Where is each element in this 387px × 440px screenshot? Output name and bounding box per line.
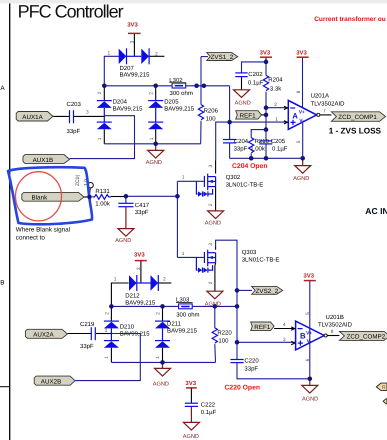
svg-text:100: 100 [218, 338, 229, 345]
svg-text:V-: V- [299, 118, 304, 123]
power 3V3 at op-amp A V+ [296, 49, 308, 107]
svg-text:BAV99,215: BAV99,215 [120, 72, 151, 79]
junction AGND bus at C205 [264, 156, 269, 161]
svg-text:AGND: AGND [205, 220, 221, 226]
junction AGND bus at R210 [249, 156, 254, 161]
wire op-amp A +in [216, 122, 288, 160]
junction bus-A at D205 [153, 84, 158, 89]
svg-text:2: 2 [149, 92, 155, 95]
wire D207 left leg [104, 56, 119, 86]
wire op-amp B +in [237, 341, 296, 343]
svg-text:0.1µF: 0.1µF [201, 409, 217, 416]
svg-text:3: 3 [130, 40, 136, 43]
transistor Q302 [196, 160, 263, 206]
junction +in wire B at C220 [235, 340, 240, 345]
wire gates vertical [176, 181, 178, 257]
svg-text:1: 1 [97, 137, 103, 140]
svg-text:R220: R220 [217, 330, 232, 337]
wire D204 mid to AUX1B [70, 116, 135, 159]
svg-text:R210: R210 [255, 138, 270, 145]
svg-text:BAV99,215: BAV99,215 [167, 328, 198, 335]
diode pair D205 [148, 86, 195, 144]
svg-text:AUX2B: AUX2B [41, 379, 62, 386]
svg-text:R204: R204 [268, 76, 283, 83]
svg-text:U201B: U201B [326, 314, 344, 321]
wire D212 left leg [111, 283, 128, 306]
svg-text:300 ohm: 300 ohm [176, 312, 199, 319]
capacitor C202 [235, 62, 266, 87]
svg-text:C205: C205 [271, 138, 286, 145]
junction bus-B at D210 [109, 304, 114, 309]
svg-text:1 - ZVS LOSS: 1 - ZVS LOSS [329, 126, 382, 135]
junction Blank node [87, 195, 92, 200]
wire rail D210/D211 bottom [111, 361, 215, 363]
svg-text:C220: C220 [244, 358, 259, 365]
svg-text:4: 4 [283, 322, 286, 328]
svg-text:BAV99,215: BAV99,215 [120, 331, 151, 338]
wire Q302 gate [177, 180, 203, 182]
junction AGND bus at op-amp A V- [300, 156, 305, 161]
net flag right edge lower [383, 399, 387, 404]
svg-text:3.3k: 3.3k [270, 85, 282, 92]
svg-text:D211: D211 [167, 320, 182, 327]
svg-text:3: 3 [208, 165, 214, 168]
wire D212 center tap [137, 282, 151, 284]
power 3V3 at C222 [185, 380, 196, 403]
svg-text:3V3: 3V3 [134, 251, 145, 258]
ground AGND under D204/D205 rail [146, 144, 164, 166]
svg-text:BAV99,215: BAV99,215 [113, 106, 144, 113]
capacitor C220 [230, 342, 309, 379]
svg-text:2: 2 [155, 52, 158, 58]
diode D212 [114, 267, 166, 306]
svg-text:3V3: 3V3 [303, 272, 314, 279]
svg-text:Q302: Q302 [226, 174, 241, 181]
svg-text:33pF: 33pF [135, 209, 149, 216]
svg-text:D205: D205 [164, 98, 179, 105]
wire AGND bus under caps [230, 157, 303, 159]
svg-text:1: 1 [275, 116, 278, 122]
svg-text:D210: D210 [120, 323, 135, 330]
net flag ZVS2_2 [252, 286, 283, 295]
svg-text:ZVS1_2: ZVS1_2 [211, 54, 234, 61]
junction bus-B at drain drop [235, 304, 240, 309]
junction rail-B at D211 / AGND [160, 360, 165, 365]
capacitor C203 [53, 101, 82, 135]
capacitor C417 [118, 196, 150, 216]
svg-text:Q303: Q303 [242, 249, 257, 256]
svg-text:3V3: 3V3 [260, 49, 271, 56]
svg-text:0.1µF: 0.1µF [248, 80, 264, 87]
junction V- rail at op-amp B [308, 377, 313, 382]
capacitor C205 with R210 tap [259, 138, 287, 158]
capacitor C204 [223, 138, 249, 158]
net flag ZVS1_2 [207, 53, 238, 62]
svg-text:1: 1 [104, 356, 110, 359]
resistor R204 [263, 62, 283, 141]
junction bus-A left of ZVS drop [194, 84, 199, 89]
ground AGND under C204/C205 bus [293, 158, 311, 182]
svg-text:V+: V+ [299, 109, 305, 114]
svg-text:8: 8 [296, 90, 302, 93]
svg-text:AGND: AGND [146, 160, 162, 166]
svg-text:3V3: 3V3 [127, 22, 138, 29]
svg-text:Where Blank signal: Where Blank signal [16, 227, 70, 234]
svg-text:C417: C417 [135, 202, 150, 209]
svg-text:REF1: REF1 [254, 324, 271, 331]
svg-text:3LN01C-TB-E: 3LN01C-TB-E [226, 182, 264, 189]
power 3V3 above D212 [134, 251, 147, 283]
svg-text:connect to: connect to [16, 235, 46, 242]
net flag ZCD_COMP1 [331, 112, 385, 122]
net flag REF1 upper [236, 111, 266, 120]
svg-text:7: 7 [323, 108, 326, 114]
svg-text:AGND: AGND [153, 381, 169, 387]
diode pair D211 [155, 306, 198, 362]
capacitor C222 [185, 401, 217, 415]
svg-text:33pF: 33pF [234, 145, 248, 152]
wire op-amp A output [320, 114, 332, 116]
ground AGND under C222 [183, 407, 200, 440]
wire AUX1A to D204 mid [74, 115, 104, 117]
wire ZVS1_2 stub [201, 56, 208, 58]
svg-text:C220 Open: C220 Open [225, 384, 261, 391]
svg-text:300 ohm: 300 ohm [170, 90, 193, 97]
svg-text:BAV99,215: BAV99,215 [125, 299, 156, 306]
svg-text:C204: C204 [234, 138, 249, 145]
svg-text:5: 5 [305, 312, 311, 315]
diode D207 [108, 40, 159, 78]
svg-text:2: 2 [163, 276, 166, 282]
ground AGND at op-amp B V- rail [302, 379, 318, 403]
wire bus ZVS node lower [111, 305, 237, 307]
svg-text:AUX1B: AUX1B [33, 157, 54, 164]
wire D207 right stub [149, 55, 164, 57]
wire D207 center tap [127, 55, 142, 57]
resistor R220 [212, 306, 232, 362]
svg-text:3: 3 [136, 267, 142, 270]
svg-text:3V3: 3V3 [296, 49, 307, 56]
svg-text:AGND: AGND [293, 176, 309, 182]
svg-text:0.1µF: 0.1µF [272, 145, 288, 152]
svg-text:5: 5 [296, 140, 302, 143]
junction R210 tap [264, 127, 269, 132]
inductor L303 [176, 297, 200, 319]
diode pair D210 [104, 306, 150, 362]
svg-text:AUX1A: AUX1A [22, 114, 43, 121]
svg-text:8: 8 [331, 329, 334, 335]
svg-text:TLV3502AID: TLV3502AID [311, 100, 346, 107]
net flag AUX1A [16, 112, 53, 122]
svg-text:REF1: REF1 [240, 113, 257, 120]
ground AGND under D210/D211 rail [153, 362, 171, 387]
wire D210 mid to AUX2B [75, 334, 140, 381]
svg-text:100: 100 [206, 115, 217, 122]
junction +in wire at C204 [227, 120, 232, 125]
wire ZVS2_2 stub [237, 289, 252, 291]
svg-text:U201A: U201A [311, 92, 329, 99]
svg-text:V-: V- [307, 339, 312, 344]
net flag right edge upper [376, 383, 387, 391]
junction R131/C417 node [124, 194, 129, 199]
svg-text:B: B [0, 280, 4, 287]
junction bus-B at D211 [160, 304, 165, 309]
svg-text:Blank: Blank [32, 195, 49, 202]
ground AGND at Q302 source [205, 190, 224, 226]
wire bus ZVS node upper [104, 85, 229, 87]
svg-text:1: 1 [108, 51, 111, 57]
svg-text:1.00k: 1.00k [250, 145, 266, 152]
svg-text:D212: D212 [125, 292, 140, 299]
svg-text:Current transformer ou: Current transformer ou [314, 16, 386, 23]
svg-text:2: 2 [104, 312, 110, 315]
wire R131 node to gates [126, 195, 177, 197]
svg-text:ZVS2_2: ZVS2_2 [256, 288, 279, 295]
svg-text:33pF: 33pF [67, 128, 81, 135]
ground AGND at Q303 source [205, 266, 223, 308]
junction REF1 tap [264, 113, 269, 118]
wire op-amp B output [327, 335, 339, 337]
svg-text:ZCD_COMP2: ZCD_COMP2 [347, 333, 386, 340]
wire Q303 gate [177, 256, 203, 258]
svg-text:AGND: AGND [115, 238, 131, 244]
svg-text:D204: D204 [113, 98, 128, 105]
svg-text:1: 1 [114, 276, 117, 282]
junction gates node [175, 194, 180, 199]
annotation red circle [16, 172, 62, 221]
svg-text:3V3: 3V3 [185, 380, 196, 387]
svg-text:D207: D207 [120, 65, 135, 72]
svg-text:3: 3 [105, 328, 108, 334]
svg-text:2: 2 [208, 203, 214, 206]
power 3V3 at op-amp B V+ [303, 272, 315, 378]
svg-text:1: 1 [155, 356, 161, 359]
resistor R210 [249, 130, 270, 159]
junction bus-B at R220 [213, 304, 218, 309]
ground AGND under C417 [115, 207, 134, 244]
svg-text:AGND: AGND [235, 101, 251, 107]
junction -in wire at R204 [264, 105, 269, 110]
svg-text:C202: C202 [248, 71, 263, 78]
wire bus right drop to C204 [229, 86, 231, 139]
power 3V3 above D207 [127, 22, 140, 57]
junction rail-A at D205 / AGND [153, 142, 158, 147]
op-amp U201B [291, 312, 352, 362]
net flag AUX1B [23, 155, 70, 164]
svg-text:1: 1 [149, 137, 155, 140]
transistor Q303 [196, 243, 279, 285]
svg-text:R131: R131 [95, 188, 110, 195]
junction 3V3 node R204/C202 [264, 60, 269, 65]
svg-text:B: B [300, 332, 306, 341]
svg-text:R206: R206 [204, 107, 219, 114]
wire rail D204/D205 bottom [104, 143, 200, 145]
svg-text:PFC Controller: PFC Controller [18, 1, 124, 21]
svg-text:V+: V+ [306, 330, 312, 335]
junction ZVS2_2 tap [235, 288, 240, 293]
svg-text:6: 6 [305, 358, 311, 361]
svg-text:ZC0|: ZC0| [75, 175, 81, 186]
wire D212 right stub [158, 282, 171, 284]
svg-text:A: A [0, 85, 5, 92]
power 3V3 at R204/C202 node [260, 49, 272, 62]
svg-text:AGND: AGND [183, 434, 199, 440]
svg-text:C222: C222 [201, 401, 216, 408]
wire op-amp A -in [266, 107, 288, 109]
wire op-amp A V- drop [302, 123, 304, 158]
junction bus-A at D204 [102, 84, 107, 89]
net flag Blank [22, 192, 90, 201]
net flag AUX2A [25, 329, 67, 338]
svg-text:C203: C203 [67, 101, 82, 108]
svg-text:2: 2 [208, 281, 214, 284]
resistor R206 with ZVS1_2 drop [198, 57, 218, 144]
net flag REF1 lower [251, 322, 296, 331]
svg-text:1: 1 [182, 175, 185, 181]
svg-text:3LN01C-TB-E: 3LN01C-TB-E [242, 257, 280, 264]
svg-text:3: 3 [86, 110, 89, 116]
svg-text:C219: C219 [80, 321, 95, 328]
junction bus-A right of ZVS drop [202, 84, 207, 89]
annotation blue loop [8, 167, 92, 224]
svg-text:AGND: AGND [302, 396, 318, 402]
no-connect circle above Blank node [88, 183, 93, 188]
svg-text:2: 2 [274, 102, 277, 108]
svg-text:BAV99,215: BAV99,215 [164, 106, 195, 113]
svg-text:33pF: 33pF [80, 343, 94, 350]
svg-text:C204 Open: C204 Open [232, 163, 268, 170]
svg-text:A: A [292, 112, 298, 121]
ground AGND under C202 [234, 77, 251, 107]
net flag ZCD_COMP2 [339, 331, 387, 340]
svg-text:3: 3 [208, 243, 214, 246]
resistor R131 [92, 188, 126, 208]
svg-text:1: 1 [182, 251, 185, 257]
svg-text:AUX2A: AUX2A [33, 332, 54, 339]
wire AUX2A to D210 mid [96, 333, 111, 335]
svg-text:TLV3502AID: TLV3502AID [318, 322, 353, 329]
wire Q303 drain to bus [216, 240, 237, 342]
inductor L302 [169, 77, 193, 97]
op-amp U201A [284, 90, 345, 143]
svg-text:3: 3 [283, 337, 286, 343]
capacitor C219 [68, 321, 96, 350]
svg-text:R: R [382, 385, 386, 391]
svg-text:AC IN: AC IN [365, 206, 387, 216]
svg-text:2: 2 [155, 312, 161, 315]
diode pair D204 [97, 86, 143, 144]
svg-text:33pF: 33pF [244, 365, 258, 372]
svg-text:1.00k: 1.00k [95, 200, 111, 207]
svg-text:ZCD_COMP1: ZCD_COMP1 [338, 114, 377, 121]
svg-text:2: 2 [97, 91, 103, 94]
net flag AUX2B [34, 376, 75, 385]
